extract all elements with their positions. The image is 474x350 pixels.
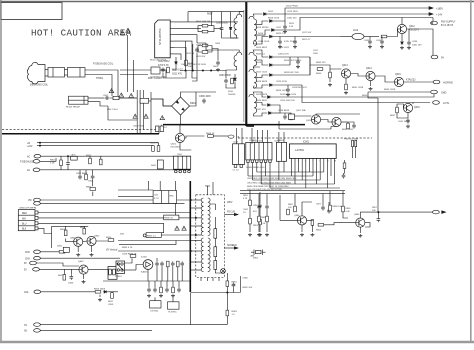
wire	[66, 239, 74, 242]
svg-text:10K: 10K	[372, 210, 376, 212]
FBT primary winding	[201, 198, 203, 236]
wire heater loop vertical	[190, 293, 192, 325]
connector P901	[48, 68, 65, 78]
wire	[341, 121, 348, 123]
resistor R804	[85, 174, 88, 180]
svg-text:13: 13	[334, 161, 336, 163]
wire	[221, 12, 223, 26]
wire bank feed 1	[236, 128, 238, 144]
capacitor C801	[66, 161, 70, 166]
wire	[345, 78, 347, 84]
svg-text:D607 1N4007: D607 1N4007	[148, 78, 163, 80]
wire sec4 top	[253, 92, 266, 97]
svg-text:X801: X801	[253, 258, 259, 260]
svg-text:12.5V: 12.5V	[443, 102, 450, 105]
svg-text:R621 4.7: R621 4.7	[302, 39, 311, 41]
wire	[351, 74, 366, 77]
capacitor C616	[283, 24, 287, 29]
capacitor C823	[171, 261, 175, 266]
capacitor C822	[160, 261, 164, 266]
terminal VP	[34, 202, 41, 206]
svg-text:R857: R857	[372, 207, 378, 209]
svg-text:+B: +B	[27, 143, 30, 145]
wire sec4 to regulators	[260, 113, 267, 116]
wire	[249, 206, 251, 219]
resistor R806	[64, 230, 67, 236]
resistor R869	[342, 206, 345, 212]
svg-text:C633: C633	[376, 40, 382, 42]
svg-text:D613 FR153: D613 FR153	[256, 27, 269, 29]
svg-text:P802 SCL SDA: P802 SCL SDA	[344, 138, 358, 141]
wire collector	[401, 18, 403, 25]
wire HV out	[215, 269, 224, 273]
wire	[273, 8, 433, 21]
svg-text:C606 400V: C606 400V	[199, 95, 211, 98]
wire AC line to fuse	[110, 97, 137, 99]
fuse F603	[160, 126, 163, 132]
svg-text:C617 50V: C617 50V	[302, 32, 312, 34]
wire primary bottom	[231, 36, 237, 38]
svg-text:9V: 9V	[24, 263, 27, 265]
svg-text:+185V: +185V	[436, 8, 443, 11]
svg-text:PC801: PC801	[115, 276, 122, 278]
wire ABL node	[226, 287, 228, 293]
wire sec4 mid	[256, 103, 266, 106]
slot connectors	[352, 140, 354, 146]
svg-text:C615 180V: C615 180V	[287, 11, 298, 13]
ground	[216, 68, 220, 72]
svg-text:C627 47U: C627 47U	[256, 109, 266, 111]
svg-text:C806: C806	[68, 283, 74, 285]
wire	[192, 50, 197, 78]
wire	[149, 100, 151, 102]
resistor array RA801	[246, 142, 272, 160]
wire	[309, 57, 311, 75]
resistor R855	[311, 220, 314, 226]
pin 6	[170, 53, 174, 55]
wire pin4	[175, 41, 193, 50]
wire	[273, 57, 290, 65]
wire row 3	[257, 171, 324, 173]
diode D617	[269, 74, 274, 77]
svg-text:2.2K: 2.2K	[50, 163, 55, 165]
svg-text:R607 150K 2W: R607 150K 2W	[196, 21, 210, 23]
diode D608	[175, 62, 178, 64]
wire	[40, 257, 120, 259]
pin stubs below jungle	[290, 158, 292, 165]
ground	[369, 87, 373, 91]
pin stub 8	[191, 261, 202, 263]
svg-text:185V: 185V	[227, 202, 233, 204]
pin 1	[170, 21, 174, 23]
terminal VOUT	[433, 210, 440, 214]
box IC632	[289, 114, 295, 120]
ground	[286, 93, 290, 97]
wire +B rail	[37, 142, 159, 144]
svg-text:Q618: Q618	[306, 120, 312, 122]
wire row 5	[270, 187, 340, 189]
wire	[83, 240, 87, 243]
wire sec2 top	[253, 50, 268, 57]
capacitor C828	[177, 287, 181, 292]
wire focus tap	[224, 214, 238, 216]
capacitor C632	[368, 39, 372, 44]
svg-text:Q616: Q616	[414, 107, 420, 109]
wire	[259, 209, 261, 220]
wire	[89, 156, 91, 158]
resistor R849	[343, 163, 346, 169]
svg-text:R645 C639: R645 C639	[384, 89, 396, 91]
resistor R852	[249, 218, 252, 224]
svg-text:D615 R622: D615 R622	[256, 47, 268, 49]
wire sec2 bottom	[252, 66, 255, 68]
capacitor C824	[180, 261, 184, 266]
wire vertical bus	[210, 12, 212, 26]
resistor R607	[202, 24, 208, 27]
svg-text:Q617 KIA: Q617 KIA	[296, 109, 306, 112]
hot/cold dashed boundary (right)	[238, 137, 372, 139]
svg-text:C608 D606: C608 D606	[216, 23, 228, 25]
capacitor C622	[286, 87, 290, 92]
wire	[125, 258, 133, 263]
wire	[256, 60, 268, 65]
wire	[92, 170, 94, 175]
node FOCUS	[234, 213, 238, 215]
wire	[226, 273, 228, 281]
svg-text:5: 5	[305, 161, 306, 163]
pin squares	[247, 160, 249, 163]
ground	[248, 233, 252, 237]
wire	[125, 269, 137, 271]
connector P902	[68, 68, 86, 78]
terminal GND	[431, 90, 438, 94]
svg-text:D616: D616	[256, 62, 262, 64]
svg-text:R626 D617 16V: R626 D617 16V	[284, 72, 299, 74]
wire 24V rail	[37, 145, 153, 147]
terminal T3	[34, 290, 41, 294]
inductor L612	[352, 33, 364, 39]
wire	[234, 74, 236, 77]
heavy B+ bus right	[163, 124, 305, 126]
wire jog	[158, 132, 160, 134]
transistor Q614	[366, 71, 375, 80]
wire bus	[279, 128, 331, 130]
capacitor C612	[161, 67, 165, 72]
wire	[147, 269, 149, 281]
svg-text:4.7K: 4.7K	[243, 198, 248, 200]
pin stub 1	[191, 199, 202, 201]
wire	[179, 125, 181, 134]
hot/cold dashed boundary (left)	[2, 129, 158, 131]
line filter LF901	[136, 90, 138, 134]
wire heater rail	[40, 324, 227, 326]
resistor R801	[60, 160, 63, 166]
wire	[370, 81, 372, 86]
svg-text:C614 C615: C614 C615	[252, 140, 263, 142]
capacitor C827	[165, 287, 169, 292]
svg-text:R641 C638: R641 C638	[352, 87, 364, 89]
wire	[213, 135, 228, 137]
svg-text:+24V: +24V	[27, 146, 33, 148]
wire	[190, 92, 197, 106]
pin stub 4	[191, 225, 202, 227]
svg-text:11: 11	[327, 161, 329, 163]
wire	[156, 258, 158, 261]
wire sec1 tap a	[253, 14, 262, 16]
wire AC neutral bottom	[108, 106, 137, 120]
transformer core heavy line	[245, 2, 247, 126]
svg-text:R813: R813	[58, 275, 64, 277]
wire pin3	[38, 222, 164, 224]
wire	[119, 97, 137, 99]
svg-text:D610: D610	[228, 91, 234, 93]
resistor R633	[290, 114, 293, 120]
wire	[63, 269, 65, 274]
wire	[249, 190, 251, 200]
svg-text:C841: C841	[243, 209, 249, 211]
warning triangle	[160, 116, 165, 120]
svg-text:R618 C616: R618 C616	[268, 18, 280, 20]
FBT HV winding	[208, 198, 210, 236]
wire	[88, 269, 108, 271]
svg-text:C851 R861 C852 R862 C853 R863: C851 R861 C852 R862 C853 R863 C854 R864	[247, 182, 292, 184]
svg-text:I/O Vertical: I/O Vertical	[106, 249, 118, 252]
svg-text:GND: GND	[441, 92, 447, 95]
wire row	[180, 70, 226, 72]
svg-text:1.5K: 1.5K	[261, 223, 266, 225]
svg-text:R833 4.7K: R833 4.7K	[122, 247, 133, 249]
wire	[239, 276, 241, 293]
wire degauss feed	[85, 70, 118, 96]
wire	[163, 70, 186, 78]
wire CN803 pin drops	[278, 161, 280, 180]
capacitor C631	[352, 123, 356, 128]
svg-text:9: 9	[319, 161, 320, 163]
wire	[316, 113, 360, 116]
wire primary top	[239, 12, 243, 15]
wire	[377, 212, 379, 217]
wire	[359, 212, 361, 218]
svg-text:3: 3	[298, 161, 299, 163]
wire	[259, 225, 261, 232]
svg-text:C613: C613	[233, 142, 239, 144]
resistor R854	[287, 209, 290, 215]
wire bank feed 3	[251, 128, 253, 144]
svg-text:R845 C836 R846 C837 R847 1K C: R845 C836 R846 C837 R847 1K C838 R848	[247, 186, 289, 188]
svg-text:C641 D635: C641 D635	[398, 121, 410, 123]
wire	[340, 36, 352, 38]
svg-text:R606 1K: R606 1K	[206, 133, 215, 135]
resistor R825	[167, 261, 170, 267]
wire pin6	[175, 54, 182, 60]
svg-text:Q801: Q801	[70, 238, 76, 240]
svg-text:Q805: Q805	[354, 214, 360, 216]
svg-text:D609: D609	[213, 66, 219, 68]
wire	[208, 46, 212, 53]
resistor R822	[113, 269, 116, 275]
svg-text:T801: T801	[205, 186, 211, 188]
wire	[70, 269, 72, 274]
svg-text:R607: R607	[207, 14, 213, 16]
transistor Q617	[311, 115, 320, 124]
svg-text:C611 47U: C611 47U	[172, 74, 183, 76]
warning triangles row	[119, 93, 124, 97]
wire	[85, 75, 112, 97]
svg-text:R624 C622 1000U: R624 C622 1000U	[284, 60, 302, 62]
flyback transformer T801 dashed outline	[196, 195, 225, 278]
voltage regulator IC803	[108, 266, 117, 279]
pin stub 5	[191, 234, 202, 236]
wire	[92, 180, 94, 186]
capacitor C821	[155, 261, 159, 266]
wire	[51, 226, 53, 248]
svg-text:R863: R863	[232, 311, 238, 313]
wire	[65, 69, 68, 71]
pin square	[234, 165, 237, 168]
svg-text:P DEGAUSS: P DEGAUSS	[20, 160, 34, 163]
svg-text:R619 1K: R619 1K	[186, 53, 195, 55]
svg-text:R853: R853	[253, 225, 259, 227]
wire	[158, 143, 160, 146]
wire	[407, 29, 409, 40]
svg-text:R620 1.2: R620 1.2	[276, 33, 286, 35]
svg-text:D611 FR107: D611 FR107	[286, 6, 299, 8]
svg-text:H-SYNC: H-SYNC	[168, 311, 177, 313]
pin 2	[35, 216, 38, 219]
transistor Q601 switching	[175, 133, 184, 142]
svg-text:C860: C860	[243, 278, 249, 280]
wire	[67, 156, 69, 161]
svg-text:C616: C616	[274, 140, 280, 142]
wire vertical run b	[192, 44, 194, 71]
capacitor C855	[257, 204, 261, 209]
svg-text:RL601 RELAY: RL601 RELAY	[66, 106, 81, 109]
resistor R815	[113, 269, 116, 275]
diode D615	[269, 56, 274, 59]
wire aux top	[197, 43, 239, 52]
transistor Q618	[332, 117, 341, 126]
heavy AC bus left	[2, 133, 159, 135]
wire	[412, 103, 414, 105]
wire pin2	[175, 27, 202, 29]
svg-text:IC801: IC801	[303, 142, 310, 144]
svg-text:4.7U: 4.7U	[154, 198, 159, 200]
ground	[257, 233, 261, 237]
resistor R611	[185, 60, 188, 66]
capacitor C802	[78, 174, 82, 179]
svg-text:R867: R867	[288, 204, 294, 206]
svg-text:C624 R629 47U: C624 R629 47U	[292, 87, 307, 89]
wire base bus	[52, 225, 89, 227]
capacitor C826	[153, 287, 157, 292]
capacitor C803	[91, 174, 95, 179]
node arrow	[442, 211, 446, 214]
wire	[359, 227, 361, 233]
capacitor C842	[327, 208, 331, 213]
svg-text:R611 C610 D608: R611 C610 D608	[150, 60, 167, 62]
wire riser	[187, 12, 189, 22]
connector CN803	[276, 142, 286, 161]
svg-text:Q802: Q802	[94, 236, 100, 238]
svg-text:1000U 1000U 470U: 1000U 1000U 470U	[246, 167, 265, 169]
wire	[185, 56, 187, 60]
svg-text:C621: C621	[313, 50, 319, 52]
wire to Q613	[310, 65, 341, 69]
svg-text:D618 R628: D618 R628	[256, 81, 268, 83]
svg-text:47U: 47U	[253, 211, 257, 213]
wire screen tap	[224, 247, 236, 249]
damper network box	[153, 191, 177, 204]
wire pin1 to top bus	[175, 21, 239, 23]
resistor R636	[347, 123, 350, 129]
svg-text:Q601: Q601	[171, 144, 177, 146]
wire	[160, 70, 166, 78]
terminal B+ ADJ	[228, 135, 234, 138]
fuse F901	[113, 96, 119, 99]
wire CN802 pin drops	[247, 163, 249, 177]
resistor R812	[59, 251, 65, 254]
wire	[324, 223, 356, 225]
svg-text:D619 R630 C625: D619 R630 C625	[280, 94, 297, 96]
resistor R641	[345, 84, 348, 90]
wire	[369, 37, 371, 40]
HV rectifier D853	[214, 261, 217, 270]
resistor R817	[111, 293, 114, 299]
svg-text:1000U 16V: 1000U 16V	[278, 54, 289, 56]
wire	[117, 261, 120, 270]
ground	[147, 294, 151, 298]
svg-text:BLU: BLU	[22, 224, 27, 226]
bridge rectifier D901	[172, 97, 190, 115]
diode D613	[271, 29, 276, 32]
resistor R608	[202, 30, 208, 33]
wire under-jungle row a	[240, 190, 345, 192]
svg-text:R808: R808	[80, 227, 86, 229]
capacitor C641	[406, 118, 410, 123]
wire	[365, 223, 370, 227]
wire	[294, 37, 296, 40]
wire	[148, 281, 150, 287]
wire	[156, 267, 158, 281]
posistor TH601	[69, 96, 89, 104]
wire slot drops	[352, 147, 354, 158]
pin stub 2	[191, 207, 202, 209]
wire sec4 bottom	[253, 113, 260, 116]
wire	[79, 170, 81, 175]
transistor Q801	[74, 237, 83, 246]
transformer DST601	[150, 301, 161, 308]
svg-text:9V: 9V	[441, 57, 444, 60]
wire	[179, 217, 191, 219]
svg-text:C803: C803	[88, 181, 94, 183]
wire under-jungle row b	[240, 193, 345, 195]
terminal S2	[34, 256, 41, 260]
svg-text:C626 100U 10V: C626 100U 10V	[280, 100, 295, 102]
wire	[77, 246, 79, 252]
resistor R616	[202, 44, 208, 47]
ground	[82, 280, 86, 284]
resistor R868	[329, 205, 332, 211]
wire	[214, 257, 216, 261]
node arrow +B	[429, 7, 433, 10]
wire	[180, 143, 191, 150]
wire sec1 tap c	[256, 30, 270, 35]
pin stub 9	[191, 269, 202, 271]
svg-text:RED: RED	[22, 213, 27, 215]
wire	[172, 65, 176, 70]
transformer T601 sec winding 3	[249, 69, 257, 88]
fuse F602	[156, 126, 159, 132]
